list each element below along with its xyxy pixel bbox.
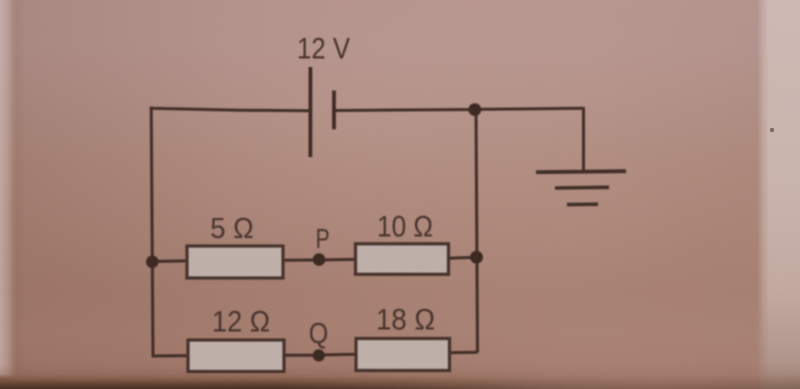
wire 5ohm box to node P <box>282 259 318 262</box>
ground symbol <box>536 171 626 204</box>
resistor R4 18 ohm <box>356 339 450 371</box>
wire node P to 10ohm box <box>319 258 356 262</box>
wire junction to ground corner <box>473 108 583 109</box>
battery B1 positive plate <box>308 67 312 157</box>
wire right vertical <box>476 108 478 353</box>
wire top branch left <box>152 259 190 263</box>
wire 18ohm box to bottom-right corner <box>448 351 478 355</box>
wire battery to right junction <box>335 110 476 111</box>
node P junction dot <box>313 253 326 266</box>
node right branch junction <box>470 251 483 264</box>
node left branch junction <box>146 255 159 268</box>
wire left vertical <box>151 107 153 357</box>
wire top-left horizontal <box>150 108 310 111</box>
wire 10ohm box to right vertical <box>447 257 478 258</box>
wire bottom-left horizontal <box>152 354 191 357</box>
node Q junction dot <box>313 349 325 361</box>
wire 12ohm box to node Q <box>283 354 318 357</box>
node junction top right <box>468 103 481 116</box>
resistor R3 12 ohm <box>188 340 284 372</box>
wire ground lead vertical <box>582 107 585 172</box>
resistor R1 5 ohm <box>187 246 283 278</box>
resistor R2 10 ohm <box>356 244 449 274</box>
wire node Q to 18ohm box <box>319 353 357 357</box>
battery B1 negative plate <box>332 91 336 130</box>
